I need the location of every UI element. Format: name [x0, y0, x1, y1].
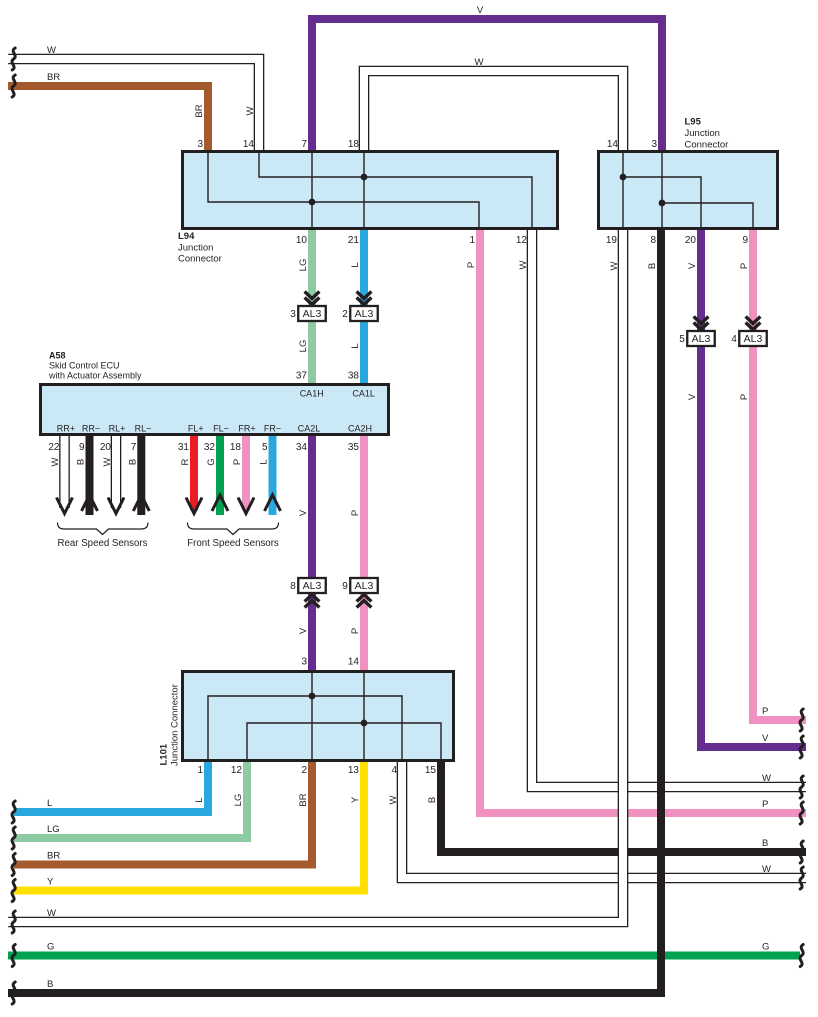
break symbol B left — [12, 982, 15, 1004]
svg-text:AL3: AL3 — [355, 580, 374, 592]
svg-text:7: 7 — [301, 139, 307, 150]
wire V top: L94 pin 7 to L95 pin 3 — [312, 19, 662, 153]
wire end cleanups — [0, 54, 8, 65]
wire B: A58 pin 7 RL- sensor — [137, 433, 145, 515]
svg-text:CA2L: CA2L — [298, 424, 321, 434]
svg-text:B: B — [47, 979, 53, 990]
svg-text:G: G — [206, 458, 217, 465]
L95 junction dot net1 — [620, 174, 627, 181]
svg-text:22: 22 — [48, 442, 60, 453]
svg-text:5: 5 — [679, 334, 685, 345]
wire B from L101 pin 15 to right edge — [441, 760, 806, 852]
svg-text:W: W — [47, 908, 56, 919]
wire L: L101 pin 1 to left edge — [14, 760, 208, 812]
L94 junction dot net1 — [309, 199, 316, 206]
svg-text:38: 38 — [348, 371, 360, 382]
break symbol BR left — [12, 75, 15, 97]
inline connector AL3 pin 3 (LG) — [305, 292, 320, 299]
svg-text:Front Speed Sensors: Front Speed Sensors — [187, 538, 279, 549]
L101 internal net pin12-pin15 — [247, 723, 441, 761]
svg-text:18: 18 — [230, 442, 242, 453]
sensor arrow up RR- — [82, 495, 98, 511]
svg-text:P: P — [762, 799, 768, 810]
break symbol W right — [800, 776, 803, 798]
svg-text:W: W — [102, 457, 113, 466]
svg-text:2: 2 — [301, 765, 307, 776]
wire R: A58 pin 31 FL+ sensor — [190, 433, 198, 510]
svg-text:19: 19 — [606, 235, 618, 246]
sensor arrow down RR+ — [57, 498, 73, 514]
wire G: A58 pin 32 FL- sensor — [216, 433, 224, 515]
svg-text:B: B — [762, 838, 768, 849]
junction connector L101 box — [183, 672, 454, 761]
svg-text:1: 1 — [197, 765, 203, 776]
svg-text:14: 14 — [607, 139, 619, 150]
svg-text:V: V — [477, 5, 484, 16]
svg-text:L: L — [350, 262, 361, 267]
svg-text:L: L — [259, 459, 270, 464]
L95 internal pin14-pin19 — [622, 151, 624, 229]
svg-text:B: B — [76, 459, 87, 465]
svg-text:BR: BR — [47, 72, 60, 83]
svg-text:Y: Y — [350, 796, 361, 803]
wire W top: L94 pin 18 to L95 pin 14 — [364, 71, 623, 153]
inline connector AL3 pin 2 (L) — [357, 292, 372, 299]
svg-text:8: 8 — [290, 581, 296, 592]
sensor arrow down RL+ — [108, 498, 124, 514]
svg-text:RR+: RR+ — [57, 424, 75, 434]
svg-text:FL−: FL− — [213, 424, 229, 434]
svg-text:7: 7 — [131, 442, 137, 453]
wire W top-left to L94 pin 14 — [8, 59, 259, 153]
L95 internal branch to pin20 — [623, 177, 701, 229]
svg-text:AL3: AL3 — [355, 308, 374, 320]
svg-text:W: W — [388, 795, 399, 804]
L95 internal branch to pin9 — [662, 203, 753, 229]
wire B from L95 pin 8 to left edge — [8, 227, 661, 993]
wire BR top-left to L94 pin 3 — [8, 86, 208, 153]
svg-text:W: W — [475, 57, 484, 68]
svg-text:Connector: Connector — [685, 140, 729, 151]
svg-text:W: W — [762, 864, 771, 875]
svg-text:AL3: AL3 — [744, 333, 763, 345]
L94 internal pin18-pin21 — [363, 151, 365, 229]
svg-text:1: 1 — [469, 235, 475, 246]
svg-text:14: 14 — [243, 139, 255, 150]
svg-text:34: 34 — [296, 442, 308, 453]
break symbol G left — [12, 945, 15, 967]
svg-text:Y: Y — [47, 877, 54, 888]
svg-text:LG: LG — [233, 794, 244, 807]
svg-text:V: V — [687, 393, 698, 400]
svg-text:21: 21 — [348, 235, 360, 246]
break symbol P right — [800, 709, 803, 731]
break symbol L left — [12, 801, 15, 823]
L101 internal pin14-pin13 — [363, 671, 365, 761]
skid control ECU A58 box — [41, 385, 389, 435]
wire LG: L101 pin 12 to left edge — [14, 760, 247, 838]
junction connector L95 box — [599, 152, 778, 229]
svg-text:P: P — [739, 394, 750, 400]
brace Front Speed Sensors — [188, 523, 279, 535]
wire BR: L101 pin 2 to left edge — [14, 760, 312, 865]
svg-text:L94: L94 — [178, 231, 195, 242]
svg-text:V: V — [762, 733, 769, 744]
svg-text:Junction: Junction — [685, 128, 720, 139]
svg-text:Junction Connector: Junction Connector — [170, 684, 181, 766]
svg-text:L: L — [47, 798, 52, 809]
break symbol BR left lower — [12, 854, 15, 876]
wire W from L94 pin 12 to right edge — [532, 227, 806, 787]
svg-text:Junction: Junction — [178, 243, 213, 254]
svg-text:4: 4 — [391, 765, 397, 776]
svg-text:W: W — [762, 773, 771, 784]
wire L: A58 pin 5 FR- sensor — [269, 433, 277, 515]
wire V from L95 pin 20 to right edge — [701, 227, 806, 747]
svg-text:P: P — [350, 628, 361, 634]
svg-text:FR+: FR+ — [238, 424, 255, 434]
L101 internal pin3-pin2 — [311, 671, 313, 761]
svg-text:L: L — [194, 797, 205, 802]
wire P: A58 pin 18 FR+ sensor — [242, 433, 250, 510]
L101 junction dot net1 — [309, 693, 316, 700]
svg-text:35: 35 — [348, 442, 360, 453]
svg-text:3: 3 — [301, 657, 307, 668]
svg-text:LG: LG — [298, 259, 309, 272]
svg-text:BR: BR — [194, 104, 205, 117]
svg-text:W: W — [609, 261, 620, 270]
L94 internal net pin3-pin1 — [208, 151, 479, 229]
break symbol W bottom left — [12, 911, 15, 933]
svg-text:CA1H: CA1H — [300, 389, 324, 399]
svg-text:3: 3 — [290, 309, 296, 320]
brace Rear Speed Sensors — [58, 523, 149, 535]
inline connector AL3 pin 8 (V) — [305, 595, 320, 602]
svg-text:FR−: FR− — [264, 424, 281, 434]
svg-text:R: R — [180, 458, 191, 465]
L101 internal net pin1-pin4 — [208, 696, 402, 761]
svg-text:L95: L95 — [685, 117, 702, 128]
sensor arrow up FL- — [212, 495, 228, 511]
inline connector AL3 pin 9 (P) — [357, 595, 372, 602]
svg-text:B: B — [127, 459, 138, 465]
svg-text:AL3: AL3 — [303, 308, 322, 320]
svg-text:Rear Speed Sensors: Rear Speed Sensors — [58, 538, 148, 549]
wire Y: L101 pin 13 to left edge — [14, 760, 364, 891]
break symbol W right lower — [800, 867, 803, 889]
svg-text:15: 15 — [425, 765, 437, 776]
svg-text:AL3: AL3 — [692, 333, 711, 345]
wire W from L95 pin 19 to left edge — [8, 227, 623, 922]
L94 internal pin7-pin10 — [311, 151, 313, 229]
sensor arrow down FL+ — [186, 498, 202, 514]
svg-text:G: G — [47, 942, 54, 953]
sensor arrow up RL- — [133, 495, 149, 511]
break symbol B right — [800, 841, 803, 863]
svg-text:9: 9 — [742, 235, 748, 246]
svg-text:3: 3 — [197, 139, 203, 150]
svg-text:P: P — [232, 459, 243, 465]
svg-text:5: 5 — [262, 442, 268, 453]
inline connector AL3 pin 4 (P) — [746, 317, 761, 324]
sensor arrow up FR- — [265, 495, 281, 511]
svg-text:LG: LG — [47, 824, 60, 835]
svg-text:LG: LG — [298, 340, 309, 353]
wire LG: L94 pin 10 to A58 pin 37 — [308, 227, 316, 386]
svg-text:8: 8 — [650, 235, 656, 246]
svg-text:31: 31 — [178, 442, 190, 453]
svg-text:L101: L101 — [159, 743, 170, 765]
wire L: L94 pin 21 to A58 pin 38 — [360, 227, 368, 386]
svg-text:4: 4 — [731, 334, 737, 345]
break symbol LG left — [12, 827, 15, 849]
svg-text:W: W — [50, 457, 61, 466]
L94 internal net pin14-pin12 — [259, 151, 532, 229]
break symbol P right lower — [800, 802, 803, 824]
svg-text:L: L — [350, 343, 361, 348]
L101 junction dot net2 — [361, 720, 368, 727]
svg-text:V: V — [298, 627, 309, 634]
svg-text:P: P — [762, 706, 768, 717]
break symbol W left — [12, 48, 15, 70]
svg-text:BR: BR — [298, 793, 309, 806]
wire W: A58 pin 20 RL+ sensor — [111, 433, 122, 508]
svg-text:RL−: RL− — [135, 424, 152, 434]
wire V: A58 pin 34 to L101 pin 3 — [308, 433, 316, 673]
svg-text:10: 10 — [296, 235, 308, 246]
svg-text:with Actuator Assembly: with Actuator Assembly — [48, 370, 142, 380]
svg-text:RL+: RL+ — [109, 424, 126, 434]
svg-text:9: 9 — [342, 581, 348, 592]
svg-text:13: 13 — [348, 765, 360, 776]
svg-text:Connector: Connector — [178, 254, 222, 265]
junction connector L94 box — [183, 152, 558, 229]
svg-text:32: 32 — [204, 442, 216, 453]
svg-text:CA2H: CA2H — [348, 424, 372, 434]
wire P from L94 pin 1 to right edge — [480, 227, 806, 813]
L94 junction dot net2 — [361, 174, 368, 181]
svg-text:14: 14 — [348, 657, 360, 668]
break symbol V right — [800, 736, 803, 758]
svg-text:RR−: RR− — [82, 424, 100, 434]
svg-text:B: B — [427, 797, 438, 803]
svg-text:18: 18 — [348, 139, 360, 150]
svg-text:FL+: FL+ — [188, 424, 204, 434]
svg-text:12: 12 — [516, 235, 528, 246]
L95 internal pin3-pin8 — [661, 151, 663, 229]
wire P from L95 pin 9 to right edge — [753, 227, 806, 720]
svg-text:CA1L: CA1L — [352, 389, 375, 399]
svg-text:9: 9 — [79, 442, 85, 453]
sensor arrow down FR+ — [238, 498, 254, 514]
svg-text:37: 37 — [296, 371, 308, 382]
svg-text:3: 3 — [651, 139, 657, 150]
break symbol Y left — [12, 880, 15, 902]
svg-text:W: W — [518, 260, 529, 269]
svg-text:V: V — [298, 509, 309, 516]
inline connector AL3 pin 5 (V) — [694, 317, 709, 324]
svg-text:W: W — [47, 45, 56, 56]
svg-text:2: 2 — [342, 309, 348, 320]
svg-text:20: 20 — [100, 442, 112, 453]
wire G bottom horizontal — [8, 952, 800, 960]
svg-text:P: P — [466, 262, 477, 268]
wire B: A58 pin 9 RR- sensor — [86, 433, 94, 515]
svg-text:A58: A58 — [49, 350, 66, 360]
svg-text:P: P — [739, 263, 750, 269]
wire P: A58 pin 35 to L101 pin 14 — [360, 433, 368, 673]
svg-text:12: 12 — [231, 765, 243, 776]
break symbol G right — [800, 945, 803, 967]
svg-text:P: P — [350, 510, 361, 516]
svg-text:Skid Control ECU: Skid Control ECU — [49, 361, 120, 371]
svg-text:G: G — [762, 942, 769, 953]
wire W from L101 pin 4 to right edge — [402, 760, 806, 878]
svg-text:20: 20 — [685, 235, 697, 246]
L95 junction dot net2 — [659, 200, 666, 207]
svg-text:B: B — [647, 263, 658, 269]
svg-text:AL3: AL3 — [303, 580, 322, 592]
svg-text:BR: BR — [47, 851, 60, 862]
wire W: A58 pin 22 RR+ sensor — [59, 433, 70, 508]
svg-text:V: V — [687, 262, 698, 269]
svg-text:W: W — [245, 106, 256, 115]
